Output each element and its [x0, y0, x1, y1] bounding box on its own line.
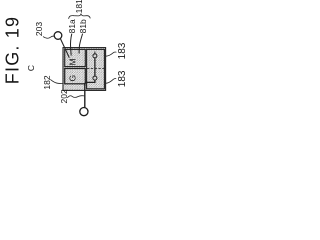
leader 81a: [71, 34, 72, 56]
svg-text:C: C: [26, 65, 36, 71]
output shaft wire: [84, 83, 86, 107]
phi-2 stem above: [94, 68, 96, 76]
phi-2 link to G box: [85, 80, 95, 82]
terminal phi-2 circle: [93, 76, 97, 80]
svg-text:183: 183: [117, 42, 128, 59]
svg-text:G: G: [68, 75, 78, 82]
svg-text:FIG. 19: FIG. 19: [3, 16, 23, 84]
phi-1 stem below: [94, 58, 96, 68]
terminal circle 202 (bottom): [80, 108, 88, 116]
svg-text:M: M: [67, 58, 77, 65]
svg-text:81b: 81b: [78, 19, 88, 33]
phi-1 stub above: [94, 51, 96, 53]
brace grouping 81a,81b to 181: [69, 14, 91, 19]
svg-text:183: 183: [117, 70, 128, 87]
leader 183 upper: [106, 52, 117, 56]
inner box G (generator 81b): [65, 69, 86, 84]
inner box M (motor 81a): [65, 49, 86, 66]
outer housing box 181 (stippled): [63, 48, 106, 91]
leader 81b: [79, 34, 83, 54]
right inner box (terminal block 183): [87, 49, 105, 88]
svg-text:81a: 81a: [67, 19, 77, 33]
axis dashed line: [87, 67, 104, 69]
svg-text:202: 202: [59, 89, 69, 103]
leader 202: [67, 96, 84, 98]
leader 203: [43, 36, 54, 38]
svg-text:203: 203: [34, 22, 44, 36]
svg-text:181: 181: [74, 0, 84, 13]
svg-text:182: 182: [42, 75, 52, 89]
terminal circle 203 (top left): [54, 32, 62, 40]
wire from 203 terminal into box M: [60, 39, 69, 58]
terminal phi-1 circle: [93, 54, 97, 58]
leader 183 lower: [106, 78, 116, 83]
leader 182: [50, 79, 63, 83]
